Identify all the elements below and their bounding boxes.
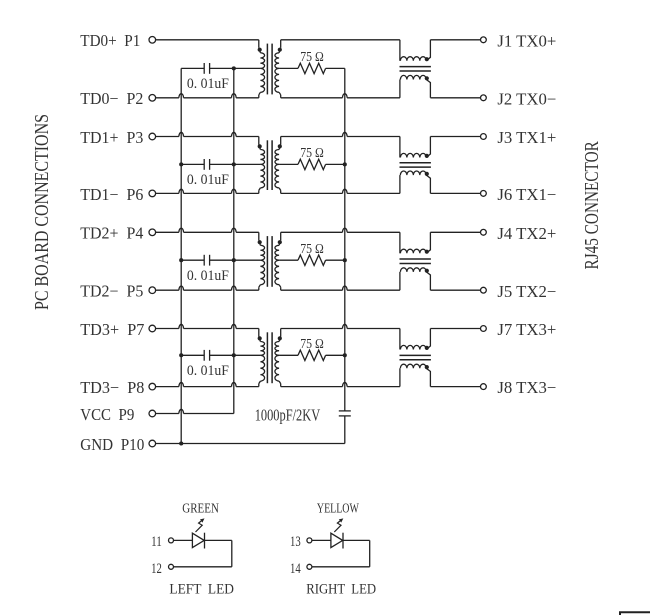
svg-text:J4 TX2+: J4 TX2+	[497, 224, 556, 243]
svg-text:TD0− P2: TD0− P2	[80, 89, 143, 108]
svg-text:TD3+ P7: TD3+ P7	[80, 320, 144, 339]
svg-text:75 Ω: 75 Ω	[300, 336, 324, 351]
svg-text:14: 14	[290, 561, 301, 577]
svg-text:J3 TX1+: J3 TX1+	[497, 128, 556, 147]
svg-text:TD1− P6: TD1− P6	[80, 185, 143, 204]
svg-text:0. 01uF: 0. 01uF	[187, 363, 229, 379]
svg-text:VCC P9: VCC P9	[80, 405, 134, 424]
svg-text:J1 TX0+: J1 TX0+	[497, 31, 556, 50]
svg-text:0. 01uF: 0. 01uF	[187, 172, 229, 188]
svg-text:J5 TX2−: J5 TX2−	[497, 282, 556, 301]
svg-text:J8 TX3−: J8 TX3−	[497, 378, 556, 397]
svg-text:TD2− P5: TD2− P5	[80, 282, 143, 301]
svg-text:0. 01uF: 0. 01uF	[187, 76, 229, 92]
svg-text:12: 12	[151, 561, 162, 577]
svg-text:J6 TX1−: J6 TX1−	[497, 185, 556, 204]
svg-text:PC BOARD CONNECTIONS: PC BOARD CONNECTIONS	[31, 114, 53, 310]
svg-text:1000pF/2KV: 1000pF/2KV	[255, 405, 321, 424]
svg-text:75 Ω: 75 Ω	[300, 145, 324, 160]
svg-text:GREEN: GREEN	[182, 501, 219, 516]
svg-text:TD1+ P3: TD1+ P3	[80, 128, 143, 147]
svg-text:TD2+ P4: TD2+ P4	[80, 224, 143, 243]
svg-text:RIGHT LED: RIGHT LED	[306, 582, 376, 598]
svg-text:75 Ω: 75 Ω	[300, 241, 324, 256]
svg-text:GND P10: GND P10	[80, 435, 144, 454]
svg-text:J2 TX0−: J2 TX0−	[497, 89, 556, 108]
svg-text:LEFT LED: LEFT LED	[169, 582, 234, 598]
svg-text:11: 11	[151, 534, 162, 550]
svg-text:RJ45 CONNECTOR: RJ45 CONNECTOR	[581, 141, 603, 270]
svg-text:YELLOW: YELLOW	[317, 501, 359, 516]
svg-text:J7 TX3+: J7 TX3+	[497, 320, 556, 339]
svg-text:TD3− P8: TD3− P8	[80, 378, 144, 397]
svg-text:13: 13	[290, 534, 301, 550]
svg-text:TD0+ P1: TD0+ P1	[80, 31, 140, 50]
svg-text:75 Ω: 75 Ω	[300, 49, 324, 64]
svg-text:0. 01uF: 0. 01uF	[187, 268, 229, 284]
